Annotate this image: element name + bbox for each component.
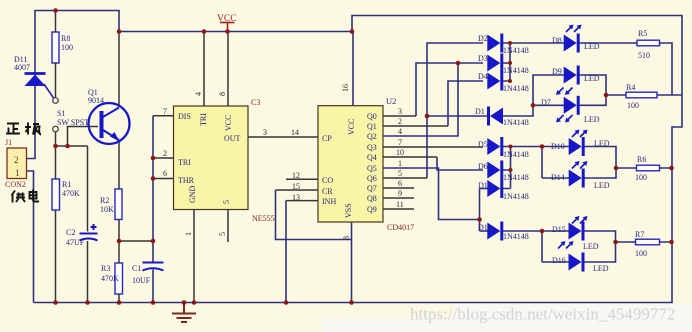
svg-text:CP: CP <box>322 134 332 143</box>
svg-text:D2: D2 <box>478 34 488 43</box>
svg-text:8: 8 <box>218 92 227 96</box>
svg-text:LED: LED <box>593 264 609 273</box>
svg-text:9014: 9014 <box>88 96 104 105</box>
svg-text:10K: 10K <box>100 205 114 214</box>
svg-text:VSS: VSS <box>344 203 353 218</box>
svg-text:13: 13 <box>292 193 300 202</box>
svg-text:Q0: Q0 <box>367 112 377 121</box>
svg-text:https://blog.csdn.net/weixin_4: https://blog.csdn.net/weixin_45499772 <box>410 305 675 324</box>
svg-text:D1: D1 <box>475 107 485 116</box>
svg-text:SW SPST: SW SPST <box>57 118 89 127</box>
svg-text:CON2: CON2 <box>5 180 26 189</box>
svg-text:2: 2 <box>163 149 167 158</box>
svg-text:Q1: Q1 <box>367 122 377 131</box>
svg-text:D13: D13 <box>478 223 492 232</box>
svg-text:D6: D6 <box>478 162 488 171</box>
svg-text:LED: LED <box>584 42 600 51</box>
svg-text:VCC: VCC <box>217 14 237 24</box>
svg-text:D5: D5 <box>478 140 488 149</box>
svg-text:1N4148: 1N4148 <box>503 150 529 159</box>
svg-text:100: 100 <box>61 43 73 52</box>
svg-text:TRI: TRI <box>199 113 208 126</box>
svg-text:470K: 470K <box>101 274 119 283</box>
svg-text:Q6: Q6 <box>367 174 377 183</box>
svg-text:OUT: OUT <box>224 134 241 143</box>
svg-text:Q8: Q8 <box>367 194 377 203</box>
svg-text:47UF: 47UF <box>66 238 85 247</box>
svg-text:R5: R5 <box>638 29 647 38</box>
svg-text:D15: D15 <box>552 225 566 234</box>
svg-text:U2: U2 <box>386 96 396 106</box>
svg-text:D16: D16 <box>552 256 566 265</box>
svg-text:9: 9 <box>398 189 402 198</box>
svg-text:R3: R3 <box>101 264 110 273</box>
svg-text:11: 11 <box>396 200 404 209</box>
svg-text:6: 6 <box>398 179 402 188</box>
svg-text:100: 100 <box>627 101 639 110</box>
svg-text:1N4148: 1N4148 <box>503 66 529 75</box>
svg-text:GND: GND <box>188 185 197 203</box>
svg-text:THR: THR <box>178 176 195 185</box>
svg-text:5: 5 <box>222 200 231 204</box>
svg-text:Q3: Q3 <box>367 143 377 152</box>
svg-text:R4: R4 <box>626 83 635 92</box>
svg-text:DIS: DIS <box>178 112 191 121</box>
svg-text:VCC: VCC <box>347 119 356 135</box>
svg-text:D3: D3 <box>478 54 488 63</box>
svg-text:D7: D7 <box>541 98 551 107</box>
svg-text:Q4: Q4 <box>367 153 377 162</box>
svg-text:3: 3 <box>398 107 402 116</box>
svg-text:NE555: NE555 <box>252 214 275 223</box>
svg-text:D10: D10 <box>551 142 565 151</box>
svg-text:D12: D12 <box>478 181 492 190</box>
svg-text:1N4148: 1N4148 <box>503 84 529 93</box>
svg-text:R6: R6 <box>637 155 646 164</box>
svg-text:D8: D8 <box>552 36 562 45</box>
svg-text:1N4148: 1N4148 <box>503 192 529 201</box>
svg-text:15: 15 <box>292 182 300 191</box>
svg-text:100: 100 <box>635 173 647 182</box>
svg-text:VCC: VCC <box>224 115 233 131</box>
svg-text:1: 1 <box>184 232 193 236</box>
svg-text:510: 510 <box>638 51 650 60</box>
svg-text:14: 14 <box>291 128 299 137</box>
svg-text:CO: CO <box>322 176 333 185</box>
svg-text:CD4017: CD4017 <box>387 223 414 232</box>
svg-text:16: 16 <box>341 84 350 92</box>
svg-text:R7: R7 <box>635 230 644 239</box>
svg-text:3: 3 <box>263 128 267 137</box>
svg-text:C1: C1 <box>132 264 141 273</box>
svg-text:Q9: Q9 <box>367 205 377 214</box>
svg-text:2: 2 <box>398 117 402 126</box>
svg-text:D14: D14 <box>551 173 565 182</box>
svg-text:10: 10 <box>396 148 404 157</box>
svg-text:R2: R2 <box>100 196 109 205</box>
svg-text:J1: J1 <box>5 138 12 147</box>
svg-text:4: 4 <box>194 92 203 96</box>
svg-text:4007: 4007 <box>14 63 30 72</box>
svg-text:R1: R1 <box>62 180 71 189</box>
svg-text:470K: 470K <box>62 189 80 198</box>
svg-text:Q7: Q7 <box>367 184 377 193</box>
svg-text:TRI: TRI <box>178 158 191 167</box>
svg-text:1N4148: 1N4148 <box>503 173 529 182</box>
svg-text:C3: C3 <box>251 98 260 107</box>
svg-text:5: 5 <box>218 232 227 236</box>
svg-text:D4: D4 <box>478 72 488 81</box>
svg-text:S1: S1 <box>57 109 65 118</box>
svg-text:CR: CR <box>322 187 333 196</box>
svg-text:1N4148: 1N4148 <box>503 46 529 55</box>
svg-text:LED: LED <box>584 115 600 124</box>
svg-text:7: 7 <box>163 107 167 116</box>
svg-text:Q2: Q2 <box>367 132 377 141</box>
svg-text:LED: LED <box>584 74 600 83</box>
svg-text:Q5: Q5 <box>367 164 377 173</box>
svg-text:LED: LED <box>594 181 610 190</box>
svg-text:LED: LED <box>583 242 599 251</box>
svg-text:LED: LED <box>594 139 610 148</box>
svg-text:C2: C2 <box>66 228 75 237</box>
svg-text:1N4148: 1N4148 <box>503 232 529 241</box>
svg-text:6: 6 <box>163 169 167 178</box>
svg-text:R8: R8 <box>61 34 70 43</box>
svg-text:1N4148: 1N4148 <box>503 118 529 127</box>
svg-text:7: 7 <box>398 138 402 147</box>
svg-text:5: 5 <box>398 169 402 178</box>
svg-text:D9: D9 <box>552 67 562 76</box>
svg-text:4: 4 <box>398 127 402 136</box>
svg-text:1: 1 <box>15 168 20 178</box>
svg-text:100: 100 <box>635 249 647 258</box>
svg-text:8: 8 <box>342 236 351 240</box>
svg-text:2: 2 <box>14 155 19 165</box>
svg-text:1: 1 <box>398 159 402 168</box>
svg-text:10UF: 10UF <box>132 276 151 285</box>
svg-text:INH: INH <box>322 197 336 206</box>
svg-text:12: 12 <box>292 171 300 180</box>
